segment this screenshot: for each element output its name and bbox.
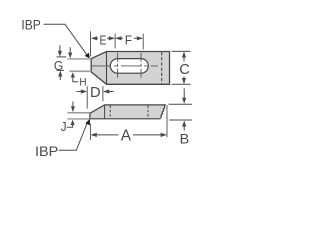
IBP bottom leader wire [59,121,88,150]
slant end line [104,105,106,119]
H top arrow (down) [69,47,71,53]
svg-text:A: A [121,127,132,144]
B bottom arrow (up, outside) [183,127,185,131]
hidden dashed line (slot right extent) [147,105,149,118]
A dim line + arrows [97,134,119,136]
blade outline (side view) with serrated right end [90,105,165,119]
G top tick [57,56,67,58]
J top ext line (gray) [68,112,90,114]
ext line left (tip) [90,31,92,56]
E dim line + arrows [97,37,99,39]
IBP bottom leader arrowhead [85,119,90,125]
A right ext line [166,105,168,137]
ext line right [142,34,144,50]
D left arrow (outside, pointing right) [77,91,82,93]
J bottom ext line (gray) [68,118,90,120]
IBP top leader wire [44,24,88,56]
G top arrow (down) [59,45,61,51]
H bottom ext line (gray) [70,70,92,72]
horizontal centerline [91,65,158,67]
svg-text:B: B [180,131,190,147]
svg-text:J: J [61,120,67,134]
J bottom arrow (up) + leader [67,125,73,128]
D left ext line [86,86,88,108]
svg-text:IBP: IBP [21,17,40,33]
hidden dashed line (slot left extent) [109,105,111,118]
H top ext line (gray) [67,58,91,60]
B top ext line [169,103,192,105]
blade body outline (top view) [91,52,169,85]
G bottom arrow (up) [59,76,61,80]
B top arrow (down, outside) [183,88,185,98]
svg-text:G: G [54,58,63,73]
svg-text:C: C [179,62,190,78]
svg-text:D: D [90,85,101,101]
C top ext line [172,50,191,52]
D right ext line [102,86,104,101]
J top arrow (down) [72,102,74,107]
slot (obround hole) [110,59,148,74]
C bottom ext line [172,83,191,85]
D right arrow (outside, pointing left) [109,91,114,93]
A left ext line [89,124,91,140]
B bottom ext line [169,119,192,121]
vertical centerline right arc [140,53,142,79]
H bottom arrow (up) + leader [73,77,79,82]
F dim line + arrows [122,37,124,39]
IBP top leader arrowhead [85,53,90,59]
C dim line + arrows [183,57,185,62]
ext line middle [114,34,116,49]
G bottom tick [57,69,65,71]
svg-text:IBP: IBP [35,144,58,160]
vertical centerline left arc [117,53,119,79]
svg-text:H: H [79,76,86,88]
chamfer end line [106,52,108,85]
svg-text:E: E [100,32,107,47]
hidden dashed line near right end [161,52,163,84]
svg-text:F: F [125,32,132,47]
